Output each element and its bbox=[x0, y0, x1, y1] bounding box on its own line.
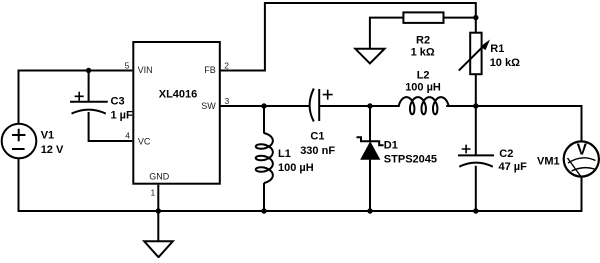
node R2/R1 junction bbox=[473, 15, 478, 20]
voltage source V1 bbox=[2, 124, 37, 159]
svg-text:100 µH: 100 µH bbox=[405, 82, 441, 94]
ground (main) bbox=[144, 241, 173, 257]
wire bottom rail bbox=[18, 210, 582, 212]
wire FB to top rail bbox=[221, 2, 477, 72]
wire R2 left lead to ground bbox=[370, 17, 404, 49]
svg-text:V1: V1 bbox=[41, 129, 54, 141]
wire C2 bottom lead bbox=[475, 166, 477, 212]
wire GND pin lead bbox=[157, 185, 159, 242]
svg-text:C1: C1 bbox=[310, 130, 324, 142]
svg-text:VC: VC bbox=[138, 136, 151, 146]
svg-text:C3: C3 bbox=[111, 95, 125, 107]
wire L1 bottom lead bbox=[263, 183, 265, 212]
svg-text:330 nF: 330 nF bbox=[300, 145, 335, 157]
svg-text:12 V: 12 V bbox=[41, 144, 64, 156]
node D1 bottom junction bbox=[367, 208, 372, 213]
svg-text:XL4016: XL4016 bbox=[159, 89, 198, 101]
capacitor C2 bbox=[458, 145, 494, 167]
wire C1 to L2 bbox=[319, 105, 400, 107]
node L2/R1/C2 junction bbox=[473, 103, 478, 108]
svg-text:FB: FB bbox=[204, 65, 216, 75]
wire VIN top-left horizontal bbox=[18, 70, 133, 72]
svg-text:GND: GND bbox=[149, 171, 170, 181]
node C3/VIN junction bbox=[86, 68, 91, 73]
svg-text:3: 3 bbox=[225, 96, 230, 106]
op-amp U1 XL4016 body bbox=[133, 42, 220, 184]
svg-text:D1: D1 bbox=[384, 140, 398, 152]
resistor R1 (variable) bbox=[459, 33, 490, 74]
svg-text:2: 2 bbox=[224, 60, 229, 70]
capacitor C3 bbox=[70, 92, 108, 114]
svg-text:10 kΩ: 10 kΩ bbox=[490, 57, 520, 69]
wire D1 bottom lead bbox=[369, 158, 371, 212]
wire C3 top bbox=[88, 71, 90, 102]
wire SW to C1 bbox=[221, 105, 310, 107]
resistor R2 bbox=[403, 12, 443, 23]
ground (R2) bbox=[355, 49, 384, 64]
inductor L1 bbox=[256, 133, 273, 183]
svg-text:SW: SW bbox=[201, 101, 216, 111]
svg-text:100 µH: 100 µH bbox=[278, 162, 314, 174]
svg-text:VIN: VIN bbox=[138, 65, 153, 75]
wire D1 top lead bbox=[369, 105, 371, 141]
capacitor C1 bbox=[310, 89, 333, 122]
svg-text:1 µF: 1 µF bbox=[111, 109, 134, 121]
svg-text:1 kΩ: 1 kΩ bbox=[411, 47, 435, 59]
wire L2 to right rail bbox=[446, 105, 582, 142]
wire V1 top vertical bbox=[18, 70, 20, 125]
svg-text:R1: R1 bbox=[490, 43, 504, 55]
svg-text:L2: L2 bbox=[417, 69, 430, 81]
wire R2 right lead bbox=[444, 17, 475, 19]
wire C3 bottom to VC bbox=[88, 112, 133, 141]
voltmeter VM1 bbox=[564, 141, 599, 176]
inductor L2 bbox=[399, 97, 449, 114]
wire L1 top lead bbox=[263, 105, 265, 134]
svg-text:R2: R2 bbox=[416, 34, 430, 46]
wire V1 bottom vertical bbox=[18, 158, 20, 212]
wire R1 bottom lead bbox=[475, 74, 477, 107]
node GND junction bbox=[156, 208, 161, 213]
diode D1 (schottky) bbox=[357, 137, 384, 159]
svg-text:V: V bbox=[577, 142, 588, 159]
wire VM1 bottom lead bbox=[581, 177, 583, 213]
svg-text:VM1: VM1 bbox=[537, 156, 560, 168]
node D1 top junction bbox=[367, 103, 372, 108]
node C2 bottom junction bbox=[473, 208, 478, 213]
svg-text:STPS2045: STPS2045 bbox=[384, 154, 437, 166]
svg-text:5: 5 bbox=[125, 60, 130, 70]
svg-text:4: 4 bbox=[125, 130, 130, 140]
svg-text:C2: C2 bbox=[499, 148, 513, 160]
svg-text:47 µF: 47 µF bbox=[499, 161, 528, 173]
svg-text:L1: L1 bbox=[278, 148, 291, 160]
node L1 bottom junction bbox=[261, 208, 266, 213]
node SW/L1/C1 junction bbox=[261, 103, 266, 108]
svg-text:1: 1 bbox=[150, 188, 155, 198]
wire C2 top lead bbox=[475, 105, 477, 155]
